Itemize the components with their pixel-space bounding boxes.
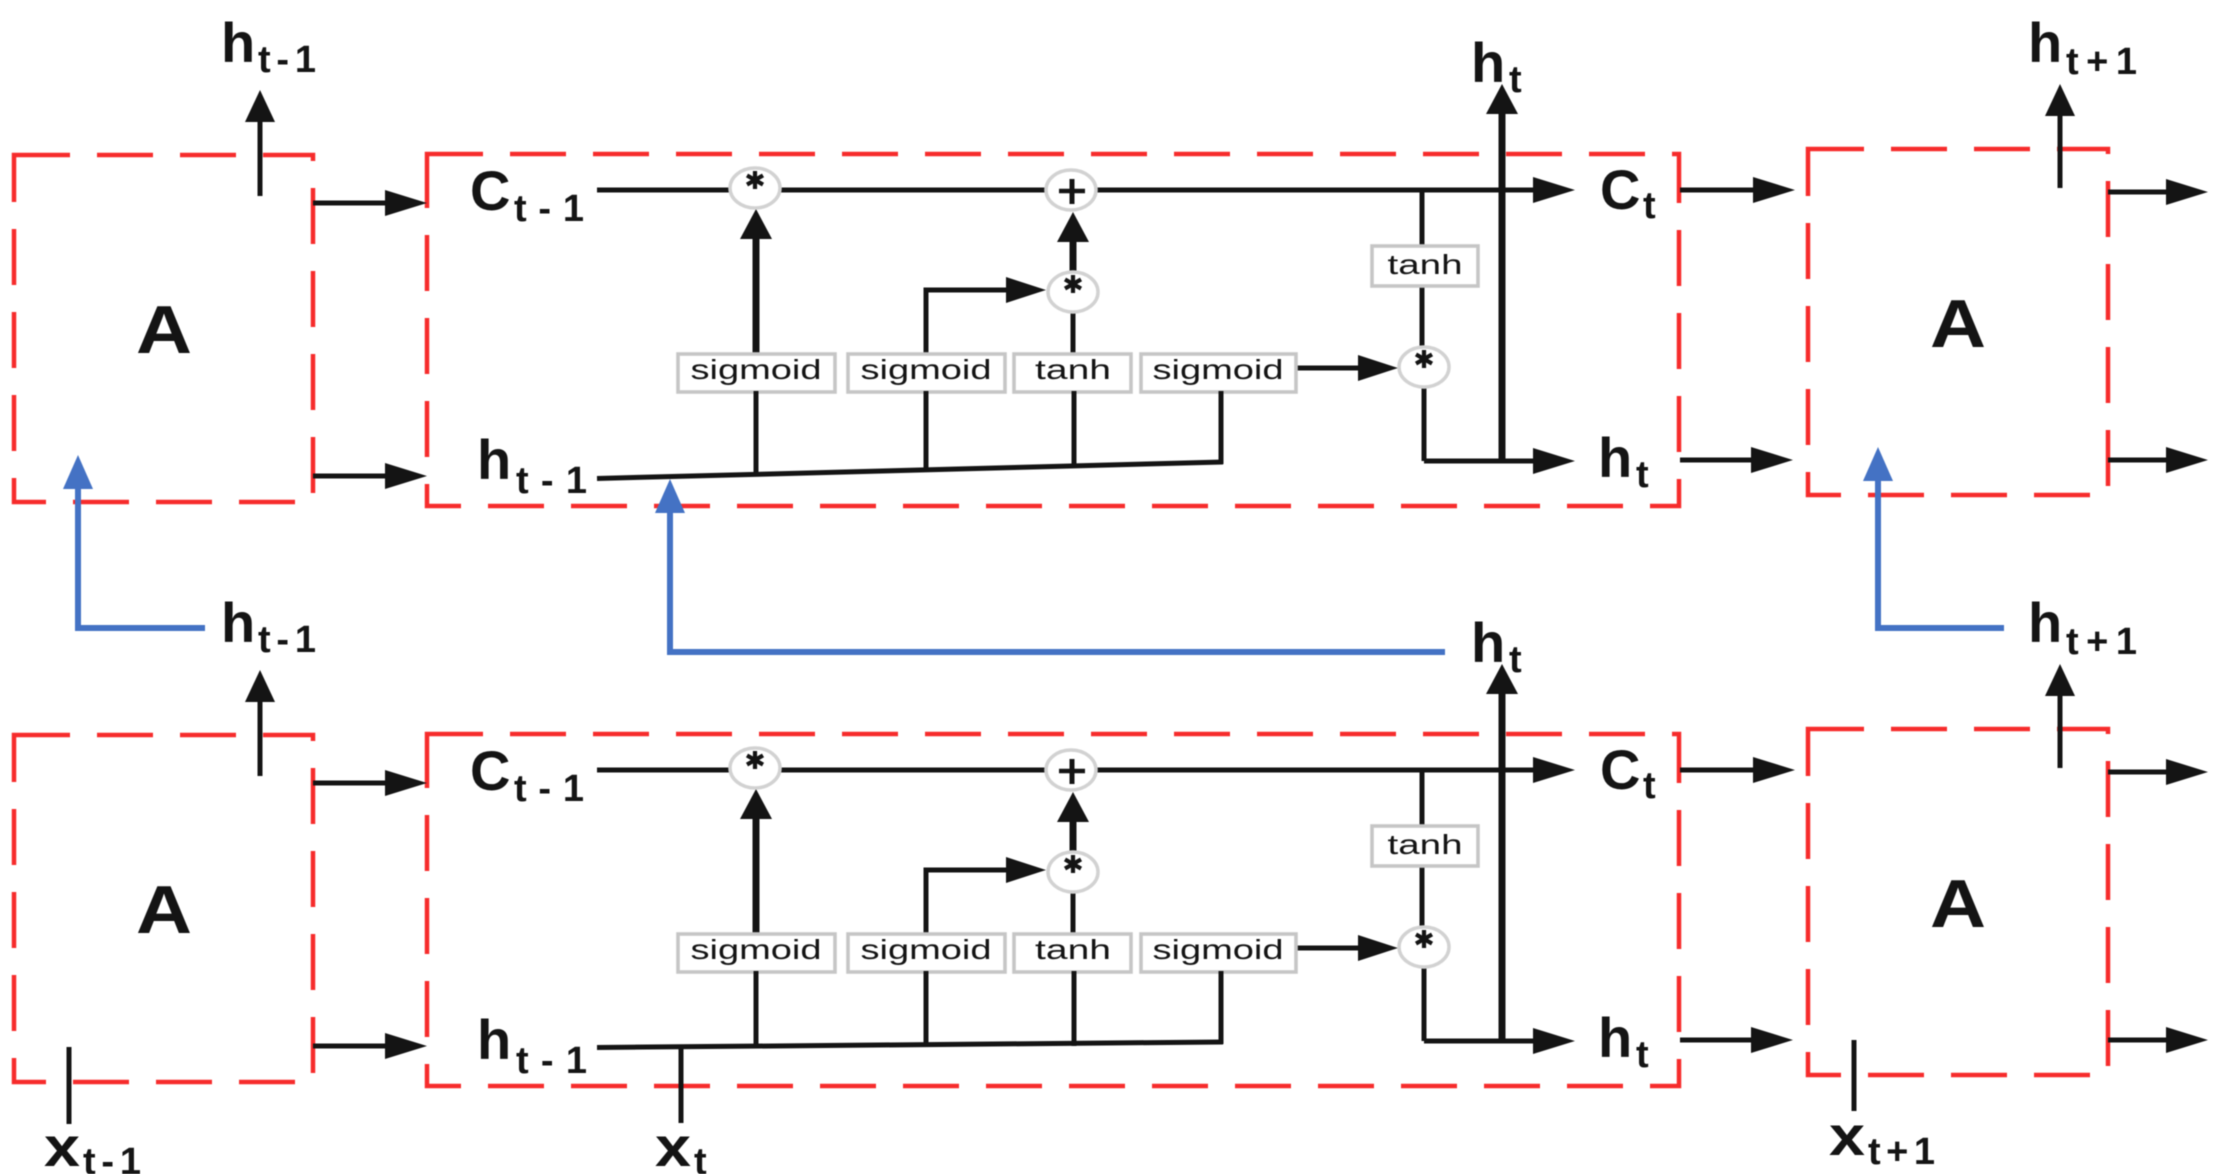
top row: wire h line [597, 462, 1223, 479]
blue recurrent arrow into left module [78, 488, 205, 628]
svg-text:x: x [44, 1115, 80, 1174]
wire x_t-1 input tick [67, 1047, 72, 1124]
wire x_t+1 input tick [1852, 1040, 1857, 1111]
blue recurrent arrow into right module [1878, 480, 2004, 628]
svg-text:t+1: t+1 [1868, 1131, 1935, 1173]
bottom row: wire taps from gates to h line [756, 971, 1221, 1048]
top row: wire arrow into h_t-1 [313, 463, 427, 489]
blue recurrent arrow into central cell [670, 512, 1445, 652]
LSTM layer 2 (top row) [14, 11, 2208, 506]
svg-text:t-1: t-1 [83, 1141, 141, 1174]
bottom row: wire arrow into h_t-1 [313, 1033, 427, 1059]
wire x_t input tick [679, 1048, 684, 1123]
svg-text:x: x [1829, 1104, 1865, 1167]
LSTM layer 1 (bottom row) [14, 591, 2208, 1086]
top row: wire taps from gates to h line [756, 391, 1221, 475]
svg-text:t: t [694, 1141, 707, 1174]
svg-text:x: x [655, 1115, 691, 1174]
bottom row: wire h line [597, 1042, 1223, 1048]
